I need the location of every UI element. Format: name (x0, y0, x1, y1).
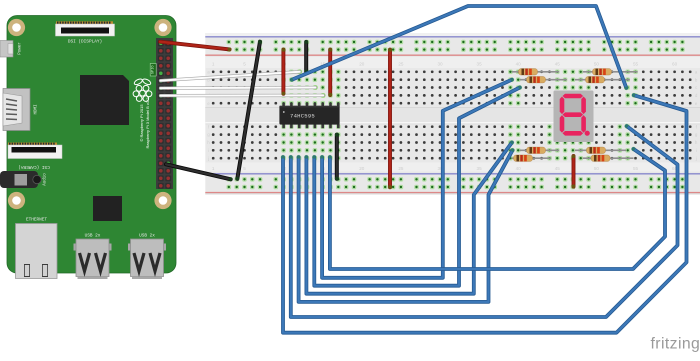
svg-text:CSI (CAMERA): CSI (CAMERA) (18, 164, 50, 169)
svg-text:74HC595: 74HC595 (290, 112, 315, 119)
svg-text:USB 2x: USB 2x (85, 233, 101, 238)
svg-text:j: j (207, 156, 209, 161)
svg-text:GPIO: GPIO (151, 65, 155, 74)
svg-text:55: 55 (633, 62, 639, 67)
svg-text:40: 40 (516, 166, 522, 171)
svg-text:5: 5 (243, 166, 246, 171)
svg-text:j: j (695, 156, 697, 161)
svg-text:i: i (696, 148, 697, 153)
svg-text:50: 50 (594, 166, 600, 171)
svg-text:35: 35 (477, 62, 483, 67)
svg-text:ETHERNET: ETHERNET (26, 218, 47, 223)
svg-text:25: 25 (398, 62, 404, 67)
svg-text:5: 5 (243, 62, 246, 67)
svg-text:20: 20 (359, 62, 365, 67)
svg-text:55: 55 (633, 166, 639, 171)
svg-text:40: 40 (516, 62, 522, 67)
svg-text:c: c (695, 85, 697, 90)
svg-text:© Raspberry Pi 2015: © Raspberry Pi 2015 (139, 104, 144, 142)
svg-text:45: 45 (555, 166, 561, 171)
svg-text:50: 50 (594, 62, 600, 67)
svg-text:1: 1 (212, 166, 215, 171)
svg-text:20: 20 (359, 166, 365, 171)
svg-text:25: 25 (398, 166, 404, 171)
svg-text:USB 2x: USB 2x (139, 233, 155, 238)
svg-text:60: 60 (672, 62, 678, 67)
svg-text:45: 45 (555, 62, 561, 67)
svg-text:Raspberry Pi 3 Model B v1.2: Raspberry Pi 3 Model B v1.2 (145, 97, 150, 149)
svg-text:fritzing: fritzing (651, 336, 700, 353)
svg-text:1: 1 (212, 62, 215, 67)
svg-text:Audio: Audio (43, 173, 48, 186)
svg-text:30: 30 (437, 62, 443, 67)
svg-text:i: i (208, 148, 209, 153)
svg-text:HDMI: HDMI (35, 104, 39, 115)
svg-text:35: 35 (477, 166, 483, 171)
svg-text:Power: Power (19, 42, 23, 55)
svg-text:DSI (DISPLAY): DSI (DISPLAY) (68, 40, 102, 45)
